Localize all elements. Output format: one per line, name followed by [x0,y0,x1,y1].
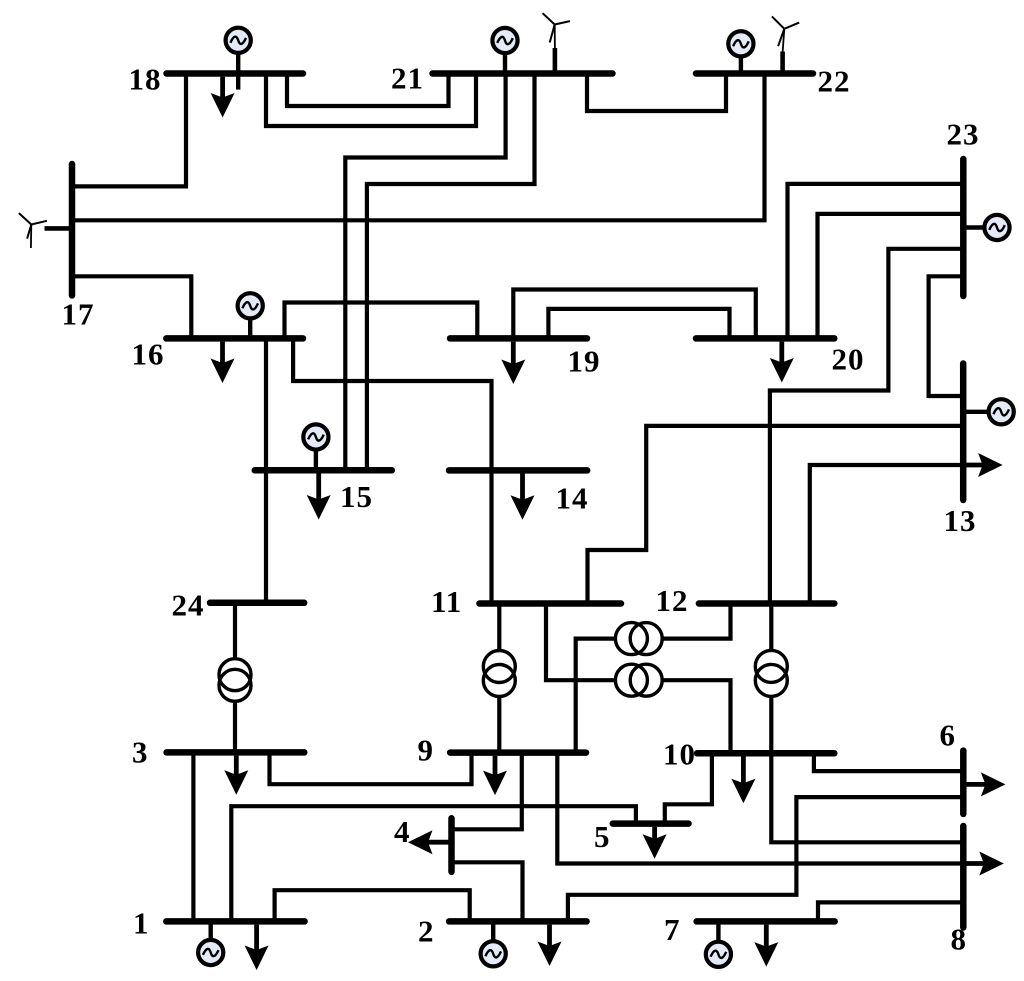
node label bus 12 [656,583,689,618]
load at bus 15 (down arrow) [307,474,331,520]
bus 6 [960,751,967,814]
wire 18-21 circuit B [287,74,449,107]
bus 15 [255,467,392,474]
node label bus 13 [944,503,977,538]
load at bus 14 (down arrow) [511,474,535,520]
bus 7 [697,918,835,925]
svg-text:7: 7 [664,912,681,947]
svg-text:19: 19 [568,344,601,379]
load at bus 13 (right arrow) [963,453,1002,477]
svg-text:17: 17 [62,297,95,332]
load at bus 4 (left arrow) [408,830,452,854]
bus 8 [960,826,967,928]
wire 2-6 [568,797,963,921]
wire 4-9 [452,753,522,830]
node label bus 19 [568,344,601,379]
bus 18 [167,70,304,77]
transformer T10-12 [755,604,787,754]
bus 19 [450,335,587,342]
bus 17 [69,164,76,296]
wire 1-5 [231,806,636,921]
load at bus 1 (down arrow) [245,925,269,970]
node label bus 22 [818,64,851,99]
svg-text:20: 20 [832,342,865,377]
node label bus 3 [132,735,149,770]
load at bus 5 (down arrow) [643,827,667,859]
bus 24 [210,600,304,607]
generator at bus 1 [198,921,223,965]
wire 15-24 [264,470,268,603]
transformer T10-11 [546,604,731,754]
bus 16 [166,335,303,342]
load at bus 2 (down arrow) [538,925,562,966]
node label bus 21 [391,61,424,96]
svg-text:8: 8 [951,922,968,957]
bus 21 [433,70,613,77]
wire 14-16 [293,338,491,470]
generator at bus 7 [706,921,731,967]
node label bus 20 [832,342,865,377]
load at bus 8 (right arrow) [963,852,1004,876]
bus 10 [697,750,834,757]
svg-text:3: 3 [132,735,149,770]
node label bus 18 [129,62,162,97]
wire 6-10 [814,753,963,771]
svg-text:2: 2 [418,914,435,949]
wire 15-21 circuit A [345,74,505,471]
bus 20 [696,335,834,342]
svg-text:12: 12 [656,583,689,618]
generator at bus 22 [728,31,753,73]
wire 8-10 [771,753,963,842]
load at bus 9 (down arrow) [483,756,507,795]
svg-text:13: 13 [944,503,977,538]
svg-text:1: 1 [133,906,150,941]
wire 12-23 [770,249,963,604]
wire 16-19 [285,303,478,339]
node label bus 5 [594,819,611,854]
node label bus 9 [418,733,435,768]
load at bus 20 (down arrow) [770,342,794,383]
transformer T9-12 [576,604,731,753]
generator at bus 23 [963,215,1009,240]
wind turbine at bus 21 [543,13,570,73]
load at bus 3 (down arrow) [224,756,248,795]
node label bus 10 [663,737,696,772]
wind turbine at bus 22 [772,16,799,73]
load at bus 18 (down arrow) [211,77,235,118]
wire 3-9 [270,752,472,784]
wire 17-18 [72,74,186,187]
svg-text:9: 9 [418,733,435,768]
wire 11-14 [489,470,493,603]
generator at bus 15 [303,424,328,470]
wire 1-3 [191,752,195,921]
wire 15-16 [264,338,268,470]
node label bus 2 [418,914,435,949]
wire 19-20 circuit B [548,309,729,339]
wire 20-23 circuit A [788,184,964,339]
wire 15-21 circuit B [367,74,535,471]
wire 11-13 [588,426,964,604]
wire 12-13 [810,465,963,604]
node label bus 4 [394,814,411,849]
wire 16-17 [72,276,191,338]
wire 1-2 [275,890,470,921]
svg-text:15: 15 [340,479,373,514]
node label bus 17 [62,297,95,332]
node label bus 15 [340,479,373,514]
bus 11 [479,600,621,607]
generator at bus 21 [492,28,517,74]
wire 13-23 [929,276,964,396]
generator at bus 18 [226,28,251,90]
node label bus 7 [664,912,681,947]
transformer T3-24 [219,603,251,753]
node label bus 11 [431,584,462,619]
generator at bus 16 [238,293,263,338]
wire 17-22 [72,74,765,221]
bus 4 [448,818,455,872]
svg-text:18: 18 [129,62,162,97]
svg-text:21: 21 [391,61,424,96]
node label bus 16 [132,337,165,372]
bus 1 [166,918,304,925]
bus 23 [960,159,967,296]
load at bus 16 (down arrow) [211,342,235,383]
bus 12 [699,600,834,607]
svg-text:11: 11 [431,584,462,619]
svg-text:6: 6 [940,718,957,753]
wind turbine at bus 17 [19,213,72,248]
load at bus 7 (down arrow) [754,925,778,967]
bus 9 [450,749,586,756]
svg-text:10: 10 [663,737,696,772]
bus 2 [449,918,586,925]
svg-text:14: 14 [556,481,589,516]
node label bus 23 [947,117,980,152]
svg-text:4: 4 [394,814,411,849]
load at bus 6 (right arrow) [963,772,1005,796]
load at bus 10 (down arrow) [731,757,755,804]
node label bus 14 [556,481,589,516]
load at bus 19 (down arrow) [501,342,525,384]
wire 7-8 [818,902,963,921]
generator at bus 13 [963,399,1014,424]
wire 8-9 [557,753,963,864]
bus 5 [613,820,689,827]
transformer T9-11 [483,604,515,753]
svg-text:5: 5 [594,819,611,854]
wire 20-23 circuit B [818,214,964,339]
bus 3 [167,749,305,756]
svg-text:23: 23 [947,117,980,152]
node label bus 1 [133,906,150,941]
wire 18-21 circuit A [266,74,476,127]
bus 22 [696,70,813,77]
svg-text:24: 24 [172,588,205,623]
bus 13 [960,364,967,501]
svg-text:22: 22 [818,64,851,99]
node label bus 6 [940,718,957,753]
bus 14 [449,467,587,474]
node label bus 8 [951,922,968,957]
wire 21-22 [587,74,726,112]
wire 19-20 circuit A [513,290,756,339]
wire 5-10 [665,753,712,823]
svg-text:16: 16 [132,337,165,372]
generator at bus 2 [481,921,506,966]
node label bus 24 [172,588,205,623]
wire 2-4 [452,862,523,921]
